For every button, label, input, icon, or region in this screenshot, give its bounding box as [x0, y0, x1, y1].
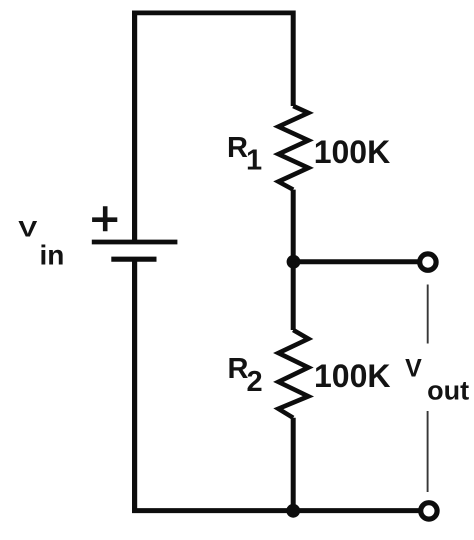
- wire R1 to node A: [291, 190, 296, 262]
- battery polarity plus sign: [92, 206, 117, 231]
- svg-text:V: V: [405, 355, 422, 383]
- wire top rail: [132, 10, 295, 15]
- output terminal bottom circle: [421, 503, 437, 519]
- wire R2 to bottom rail: [291, 418, 296, 511]
- svg-text:out: out: [427, 375, 469, 405]
- svg-text:V: V: [18, 218, 37, 242]
- wire node A to R2: [291, 262, 296, 330]
- wire left vertical lower: [132, 259, 137, 510]
- thin output lead lower segment: [427, 411, 429, 492]
- svg-text:2: 2: [247, 366, 263, 398]
- wire node A to output terminal: [294, 259, 419, 264]
- node A junction dot: [287, 255, 301, 269]
- output terminal top circle: [420, 254, 436, 270]
- svg-text:1: 1: [246, 145, 262, 177]
- wire left vertical upper: [132, 11, 137, 242]
- battery B1 positive plate: [92, 240, 178, 245]
- svg-text:R: R: [227, 132, 248, 164]
- svg-text:100K: 100K: [314, 134, 391, 170]
- battery B1 negative plate: [111, 257, 156, 262]
- resistor R1 zigzag: [278, 106, 308, 190]
- resistor R2 zigzag: [278, 330, 308, 418]
- svg-text:in: in: [40, 240, 65, 271]
- svg-text:R: R: [228, 353, 249, 385]
- wire bottom rail: [132, 508, 419, 513]
- thin output lead upper segment: [427, 285, 429, 344]
- svg-text:100K: 100K: [314, 358, 391, 394]
- bottom node junction dot: [286, 504, 300, 518]
- wire right vertical top (to R1): [291, 11, 296, 107]
